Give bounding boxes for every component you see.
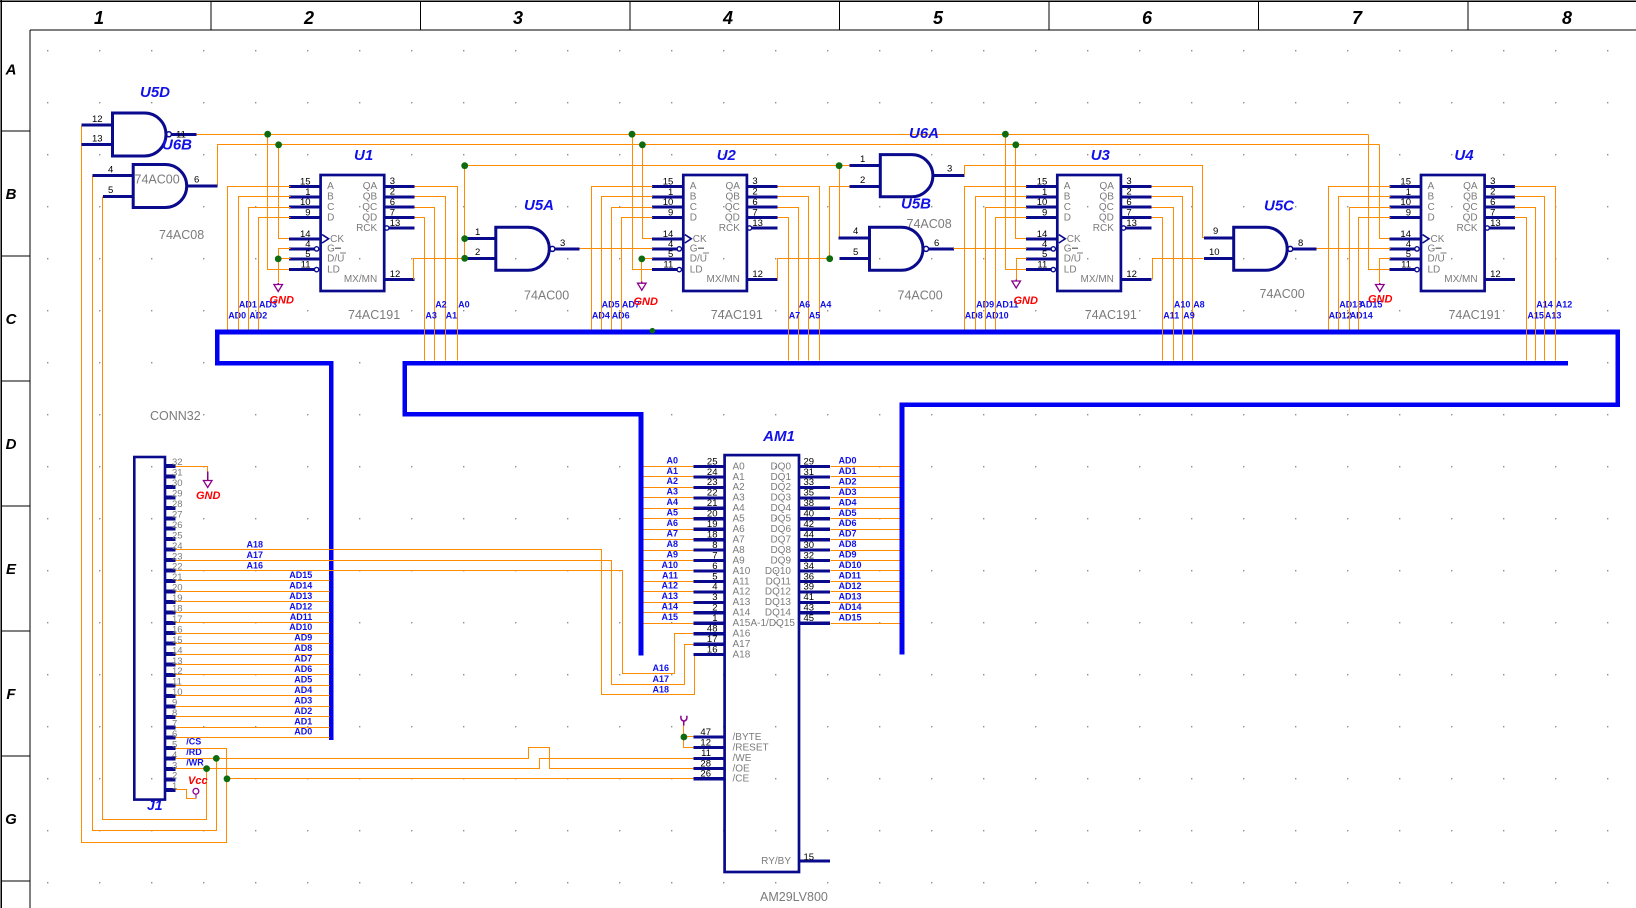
svg-text:13: 13 [92,134,103,145]
wire AD2 bus to U1.C [249,208,291,330]
svg-text:74AC191: 74AC191 [1448,308,1500,322]
svg-text:A16: A16 [733,629,751,640]
wire U6A input 1 branch down to U5B.4 [836,162,849,237]
wire net AD5: J1.11 to bus [176,674,330,685]
svg-text:AD12: AD12 [839,581,862,591]
wire net A15: bus to AM1 [644,612,694,623]
svg-text:DQ12: DQ12 [765,587,792,598]
svg-text:74AC191: 74AC191 [348,308,400,322]
svg-text:A14: A14 [1536,300,1553,310]
svg-text:3: 3 [513,8,523,28]
svg-text:A13: A13 [661,591,678,601]
bus A[0:15] horizontal [402,361,1568,366]
IC U4 74AC191 [1390,147,1516,322]
wire /CS net: J1.5 right, down, around to U5D inputs 12/13 [82,126,227,843]
svg-text:AD3: AD3 [294,695,312,705]
svg-text:D: D [690,212,697,223]
wire net AD1: AM1 to bus [831,466,900,477]
svg-text:1: 1 [94,8,104,28]
svg-text:2: 2 [390,187,395,198]
svg-text:39: 39 [804,582,815,593]
svg-text:2: 2 [860,175,865,186]
svg-text:RY/BY: RY/BY [761,856,791,867]
svg-text:A15: A15 [733,618,751,629]
wire net AD15: J1.21 to bus [176,570,330,581]
wire AD5 bus to U2.B [602,197,653,330]
svg-text:12: 12 [1490,269,1501,280]
svg-text:QD: QD [725,212,740,223]
wire net A8: bus to AM1 [644,539,694,551]
svg-text:CK: CK [330,234,344,245]
svg-text:A15: A15 [661,612,678,622]
wire AD11 bus to U3.D [996,218,1027,330]
wire net CLK1 (U5D.11 output run to U1/U2/U3/U4 LD) [197,134,1369,136]
bus vertical at AM1 DQ pins [899,403,904,655]
ground at U4 [1368,283,1393,306]
wire U5A.3 output to U2 G [580,248,653,250]
wire net AD2: AM1 to bus [831,476,900,487]
svg-text:A4: A4 [733,503,746,514]
wire A2 U1.QC to bus [415,208,447,361]
svg-text:A12: A12 [733,587,751,598]
svg-text:DQ9: DQ9 [770,555,791,566]
svg-text:DQ7: DQ7 [770,534,791,545]
wire AD12 bus to U4.A [1329,187,1391,330]
svg-text:AD14: AD14 [289,580,312,590]
svg-text:AD4: AD4 [294,685,312,695]
wire A0 U1.QA to bus [415,187,470,361]
bus vertical step toward AM1 [402,361,407,417]
svg-text:A8: A8 [1193,300,1205,310]
wire net AD0: AM1 to bus [831,456,900,467]
svg-text:AD12: AD12 [289,601,312,611]
svg-text:12: 12 [390,269,401,280]
svg-text:AD4: AD4 [592,310,610,320]
wire AD7 bus to U2.D [622,218,653,330]
wire A3 U1.QD to bus [415,218,437,361]
wire AD15 bus to U4.D [1359,218,1391,330]
wire AD4 bus to U2.A [592,187,653,330]
svg-text:2: 2 [752,187,757,198]
svg-text:RCK: RCK [356,223,377,234]
svg-text:LD: LD [327,264,340,275]
svg-text:7: 7 [1490,207,1495,218]
svg-text:12: 12 [1126,269,1137,280]
wire drop to U2 LD [629,131,653,270]
svg-text:LD: LD [690,264,703,275]
wire drop to U4 CK [1380,145,1391,239]
wire U6A.3 output to U5C.9 [965,166,1234,238]
svg-text:D/U: D/U [1064,254,1081,265]
svg-text:D/U: D/U [1428,254,1445,265]
bus segment to J1 side [215,361,334,366]
net labels A16/A17/A18 at AM1 [653,663,670,694]
svg-text:AM29LV800: AM29LV800 [760,890,828,904]
svg-text:5: 5 [853,247,858,258]
svg-text:22: 22 [707,488,718,499]
svg-text:DQ13: DQ13 [765,597,792,608]
net label /CS [186,737,201,747]
svg-text:AD5: AD5 [602,300,620,310]
svg-text:AD1: AD1 [839,466,857,476]
svg-text:D/U: D/U [690,254,707,265]
wire A4 U2.QA to bus [778,187,832,361]
svg-text:AD1: AD1 [294,716,312,726]
svg-text:48: 48 [707,624,718,635]
svg-text:6: 6 [194,175,199,186]
wire net AD2: J1.8 to bus [176,706,330,717]
wire A10 U3.QC to bus [1152,208,1191,361]
wire drop to U1 LD [264,131,290,270]
svg-text:GND: GND [1368,294,1393,306]
svg-text:9: 9 [305,208,310,219]
svg-text:5: 5 [172,739,177,750]
svg-text:A3: A3 [733,493,746,504]
svg-text:QB: QB [725,192,740,203]
connector J1 (CONN32) [134,457,182,813]
svg-text:3: 3 [172,760,177,771]
svg-text:6: 6 [752,197,757,208]
svg-text:A0: A0 [666,455,678,465]
ground at U2 [634,282,659,308]
svg-text:RCK: RCK [1093,223,1114,234]
wire A15 U4.QD to bus [1515,218,1544,361]
svg-text:19: 19 [172,593,183,604]
svg-text:3: 3 [1490,176,1495,187]
svg-text:A12: A12 [1556,300,1573,310]
wire U5A inputs tie + feed (net MX1) [461,162,849,261]
svg-text:U6B: U6B [162,137,192,154]
wire net AD14: J1.20 to bus [176,580,330,591]
svg-text:33: 33 [804,477,815,488]
wire net AD14: AM1 to bus [831,602,900,613]
svg-text:13: 13 [172,656,183,667]
gate U5B 74AC00 NAND [839,196,954,303]
svg-text:38: 38 [804,498,815,509]
svg-text:RCK: RCK [1456,223,1477,234]
svg-text:21: 21 [172,572,183,583]
wire A6 U2.QC to bus [778,208,811,361]
svg-text:DQ8: DQ8 [770,545,791,556]
svg-text:C: C [6,311,18,328]
svg-text:74AC08: 74AC08 [907,217,952,231]
svg-text:GND: GND [634,296,659,308]
wire A14 U4.QC to bus [1515,208,1553,361]
svg-text:1: 1 [475,227,480,238]
svg-text:A12: A12 [661,581,678,591]
svg-text:6: 6 [1126,197,1131,208]
svg-text:1: 1 [712,613,717,624]
svg-text:7: 7 [712,550,717,561]
svg-text:A: A [690,181,697,192]
wire U6A input 2 from net MX2 [826,187,849,263]
wire net A0: bus to AM1 [644,455,694,466]
wire /RD net: J1.4 right, down, around to U6B input 4 [93,176,217,831]
wire net AD7: J1.13 to bus [176,654,330,665]
svg-text:7: 7 [1352,8,1363,28]
svg-text:A4: A4 [820,300,832,310]
svg-text:15: 15 [300,176,311,187]
wire net AD4: AM1 to bus [831,497,900,508]
svg-text:41: 41 [804,592,815,603]
bus vertical at AM1 A0-A15 pins [639,412,644,655]
svg-text:43: 43 [804,603,815,614]
svg-text:31: 31 [804,467,815,478]
svg-text:10: 10 [1400,197,1411,208]
svg-text:LD: LD [1064,264,1077,275]
svg-text:15: 15 [804,852,815,863]
svg-text:9: 9 [1406,208,1411,219]
svg-text:C: C [690,202,697,213]
svg-text:3: 3 [1126,176,1131,187]
svg-text:4: 4 [712,582,717,593]
wire A8 U3.QA to bus [1152,187,1205,361]
svg-text:A: A [327,181,334,192]
svg-text:/RESET: /RESET [733,742,769,753]
wire net AD10: J1.16 to bus [176,622,330,633]
wire U1.12 MX/MN up to U5A inputs [414,259,465,280]
svg-text:40: 40 [804,509,815,520]
svg-text:3: 3 [390,176,395,187]
svg-text:24: 24 [172,541,183,552]
wire U5C.8 output to U4 G [1317,248,1391,250]
svg-text:D: D [1064,212,1071,223]
wire AD6 bus to U2.C [612,208,653,330]
svg-text:AD9: AD9 [294,633,312,643]
svg-text:30: 30 [172,478,183,489]
svg-text:QC: QC [1463,202,1478,213]
svg-text:U5C: U5C [1264,198,1295,215]
svg-text:DQ0: DQ0 [770,461,791,472]
svg-text:MX/MN: MX/MN [344,274,377,285]
svg-text:AD1: AD1 [239,300,257,310]
svg-text:A10: A10 [1174,300,1191,310]
svg-text:AD6: AD6 [294,664,312,674]
svg-text:AD0: AD0 [839,456,857,466]
svg-text:20: 20 [707,509,718,520]
svg-text:QC: QC [725,202,740,213]
wire AM1 /BYTE + /RESET tie [681,726,694,748]
svg-text:/CE: /CE [733,774,750,785]
svg-text:CONN32: CONN32 [150,409,201,423]
svg-text:CK: CK [1067,234,1081,245]
svg-text:A16: A16 [653,663,670,673]
wire net AD15: AM1 to bus [831,612,900,623]
svg-text:AD5: AD5 [294,674,312,684]
svg-text:U2: U2 [717,147,737,164]
svg-text:A5: A5 [809,310,821,320]
svg-text:A7: A7 [789,310,801,320]
svg-text:AD12: AD12 [1329,310,1352,320]
wire net A6: bus to AM1 [644,518,694,530]
svg-text:11: 11 [301,260,311,271]
svg-text:A2: A2 [435,300,447,310]
wire net A3: bus to AM1 [644,487,694,498]
svg-text:C: C [1428,202,1435,213]
svg-text:15: 15 [1400,176,1411,187]
wire net AD1: J1.7 to bus [176,716,330,727]
svg-text:A1: A1 [666,466,678,476]
svg-text:U5B: U5B [901,196,931,213]
power Vcc at J1.1 [188,775,208,799]
svg-text:DQ11: DQ11 [766,576,792,587]
svg-text:26: 26 [700,769,711,780]
svg-text:DQ2: DQ2 [770,482,791,493]
svg-text:6: 6 [1142,8,1153,28]
svg-text:1: 1 [668,187,673,198]
svg-text:A15: A15 [1527,310,1544,320]
svg-text:1: 1 [860,154,865,165]
wire net AD3: J1.9 to bus [176,695,330,706]
svg-text:10: 10 [300,197,311,208]
svg-text:5: 5 [933,8,944,28]
svg-text:AD14: AD14 [1350,310,1373,320]
wire net AD8: J1.14 to bus [176,643,330,654]
ground at U1 [270,283,295,307]
svg-text:G: G [5,811,17,828]
svg-text:RCK: RCK [719,223,740,234]
svg-text:LD: LD [1428,264,1441,275]
svg-text:4: 4 [108,165,113,176]
svg-text:QA: QA [725,181,740,192]
svg-text:A9: A9 [1183,310,1195,320]
svg-text:12: 12 [752,269,763,280]
svg-text:AD3: AD3 [839,487,857,497]
svg-text:25: 25 [707,456,718,467]
svg-text:1: 1 [172,781,177,792]
wire AD13 bus to U4.B [1339,197,1391,330]
svg-text:QA: QA [1463,181,1478,192]
bus horizontal into AM1 address side [402,412,643,417]
svg-text:D: D [6,436,17,453]
wire net A17: J1.23 to AM1 pin17 [176,550,694,685]
wire drop to U3 CK [1012,141,1026,238]
wire net A16: J1.22 to AM1 pin48 [176,561,694,674]
svg-text:QD: QD [1463,212,1478,223]
svg-text:AD13: AD13 [289,591,312,601]
net label /WR [186,757,204,767]
svg-text:A6: A6 [799,300,811,310]
svg-text:3: 3 [752,176,757,187]
svg-text:11: 11 [663,260,673,271]
wire net AD5: AM1 to bus [831,508,900,519]
svg-text:21: 21 [707,498,718,509]
svg-text:AD9: AD9 [839,550,857,560]
svg-text:B: B [1064,192,1071,203]
svg-text:A6: A6 [733,524,746,535]
wire A9 U3.QB to bus [1152,197,1195,361]
svg-text:A0: A0 [458,300,470,310]
wire net AD10: AM1 to bus [831,560,900,571]
svg-text:AD10: AD10 [289,622,312,632]
wire net AD0: J1.6 to bus [176,727,330,738]
svg-text:A13: A13 [733,597,751,608]
wire /WR branch to AM1 /WE (with crossover jog) [203,759,693,772]
gate U5C 74AC00 NAND [1204,198,1317,302]
svg-text:QB: QB [1463,192,1478,203]
svg-text:QD: QD [1099,212,1114,223]
gate U6A 74AC08 AND [849,125,964,231]
wire net AD9: J1.15 to bus [176,633,330,644]
svg-text:19: 19 [707,519,718,530]
svg-text:A-1/DQ15: A-1/DQ15 [751,618,796,629]
svg-text:AD11: AD11 [839,570,862,580]
svg-text:A11: A11 [662,570,678,580]
wire U2 D/U to ground [638,256,652,282]
svg-text:8: 8 [172,708,177,719]
svg-text:AD10: AD10 [839,560,862,570]
svg-text:AD11: AD11 [290,612,313,622]
svg-text:9: 9 [668,208,673,219]
wire AD3 bus to U1.D [259,218,291,330]
svg-text:2: 2 [712,603,717,614]
svg-text:A3: A3 [425,310,437,320]
wire net A14: bus to AM1 [644,602,694,613]
IC U1 74AC191 [289,147,415,322]
svg-text:44: 44 [804,529,815,540]
svg-text:J1: J1 [147,797,163,813]
wire net AD13: J1.19 to bus [176,591,330,602]
svg-text:AD5: AD5 [839,508,857,518]
wire A1 U1.QB to bus [415,197,458,361]
wire net AD9: AM1 to bus [831,550,900,561]
svg-text:7: 7 [752,207,757,218]
svg-text:B: B [1428,192,1435,203]
svg-text:17: 17 [172,614,183,625]
svg-text:8: 8 [1562,8,1572,28]
svg-text:1: 1 [1042,187,1047,198]
svg-text:/BYTE: /BYTE [733,732,762,743]
svg-text:6: 6 [390,197,395,208]
svg-text:10: 10 [172,687,183,698]
svg-text:6: 6 [934,238,939,249]
svg-text:5: 5 [108,185,113,196]
gate U6B 74AC08 AND [93,137,218,243]
svg-text:U5D: U5D [140,84,170,101]
svg-text:A5: A5 [666,508,678,518]
svg-text:CK: CK [1431,234,1445,245]
net label /RD [186,747,202,757]
wire net A4: bus to AM1 [644,497,694,508]
svg-text:A10: A10 [733,566,751,577]
wire net AD8: AM1 to bus [831,539,900,550]
svg-text:A8: A8 [733,545,746,556]
svg-text:CK: CK [693,234,707,245]
svg-text:A11: A11 [1163,310,1179,320]
svg-text:U6A: U6A [909,125,939,142]
svg-text:GND: GND [270,295,295,307]
svg-text:30: 30 [804,540,815,551]
svg-text:A17: A17 [733,639,751,650]
svg-text:74AC00: 74AC00 [524,289,569,303]
svg-text:47: 47 [700,727,711,738]
svg-text:AD8: AD8 [839,539,857,549]
wire U3 D/U to ground [1017,259,1027,280]
bus vertical drop at J1 (AD0-AD15) [329,361,334,740]
svg-text:A8: A8 [666,539,678,549]
svg-text:AD15: AD15 [839,612,862,622]
wire net A12: bus to AM1 [644,581,694,592]
svg-text:A14: A14 [733,608,751,619]
wire A12 U4.QA to bus [1515,187,1573,361]
gate U5A 74AC00 NAND [465,197,580,303]
wire net AD12: AM1 to bus [831,581,900,592]
wire A13 U4.QB to bus [1515,197,1562,361]
svg-text:U5A: U5A [524,197,554,214]
wire U3.12 MX/MN up to U5C.10 [1153,259,1204,280]
svg-text:B: B [6,186,17,203]
svg-text:DQ5: DQ5 [770,514,791,525]
